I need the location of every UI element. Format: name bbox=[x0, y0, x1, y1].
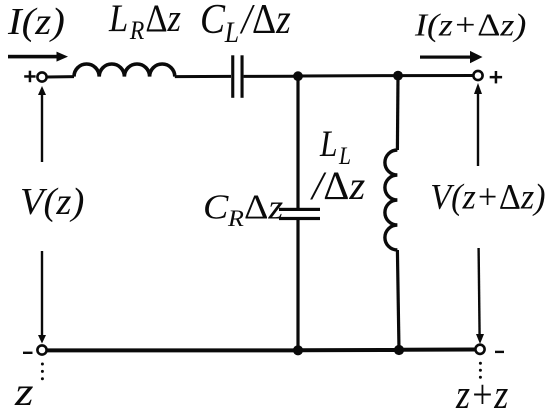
bottom wire node D to terminal BR bbox=[399, 348, 475, 352]
label V(z+dz) bbox=[430, 177, 545, 217]
svg-text:z: z bbox=[14, 371, 34, 414]
capacitor CL bbox=[231, 55, 243, 98]
node A junction dot bbox=[293, 71, 303, 81]
V(z) arrow lower (points down) bbox=[38, 251, 46, 344]
svg-text:C: C bbox=[200, 0, 226, 43]
svg-text:V(z): V(z) bbox=[20, 181, 84, 223]
wire node B to terminal TR bbox=[398, 74, 473, 77]
wire coil LL down to node D bbox=[397, 250, 399, 350]
label CR dz bbox=[203, 188, 283, 231]
svg-text:R: R bbox=[129, 16, 145, 46]
current arrow I(z) bbox=[8, 52, 68, 62]
label z (left) bbox=[14, 371, 34, 414]
svg-text:L: L bbox=[108, 0, 128, 39]
dotted line below BR bbox=[479, 362, 482, 379]
label LR dz bbox=[108, 0, 181, 45]
bottom wire node C to node D bbox=[298, 348, 399, 352]
shunt branch LL: wire node B down to coil bbox=[396, 76, 400, 150]
capacitor CR plates bbox=[279, 208, 320, 220]
shunt branch CR: wire node A down to plate bbox=[296, 76, 299, 208]
V(z+dz) arrow lower (points down) bbox=[476, 248, 484, 344]
svg-text:V(z+Δz): V(z+Δz) bbox=[430, 177, 545, 217]
terminal TL bbox=[37, 72, 46, 81]
label CL/dz bbox=[200, 0, 291, 49]
plus sign left bbox=[24, 71, 35, 83]
svg-text:C: C bbox=[203, 188, 229, 226]
svg-text:L: L bbox=[224, 16, 239, 49]
svg-text:I(z+Δz): I(z+Δz) bbox=[414, 8, 526, 42]
svg-text:Δz: Δz bbox=[145, 0, 181, 39]
label I(z+dz) bbox=[414, 8, 526, 42]
svg-text:I(z): I(z) bbox=[7, 0, 65, 42]
current arrow I(z+dz) bbox=[420, 51, 483, 63]
svg-text:/Δz: /Δz bbox=[240, 0, 291, 43]
node B junction dot bbox=[393, 71, 403, 81]
wire node A to node B bbox=[298, 74, 398, 77]
terminal BR bbox=[475, 345, 484, 354]
terminal BL bbox=[37, 345, 46, 354]
minus sign left bbox=[23, 352, 33, 354]
wire inductor to capacitor CL bbox=[175, 75, 231, 78]
inductor LL coil bbox=[385, 150, 398, 250]
label z+z (right) bbox=[455, 372, 508, 418]
inductor LR bbox=[74, 64, 175, 77]
svg-text:/Δz: /Δz bbox=[310, 163, 366, 207]
label I(z) bbox=[7, 0, 65, 42]
V(z) arrow upper (points up) bbox=[38, 86, 46, 162]
label LL/dz bbox=[319, 124, 351, 170]
svg-text:Δz: Δz bbox=[244, 188, 283, 226]
svg-text:L: L bbox=[319, 124, 337, 165]
minus sign right bbox=[495, 351, 504, 353]
wire capacitor CL to node A bbox=[244, 75, 298, 78]
label V(z) bbox=[20, 181, 84, 223]
svg-text:R: R bbox=[227, 206, 244, 232]
dotted line below BL bbox=[41, 363, 44, 381]
svg-text:z+z: z+z bbox=[455, 372, 508, 418]
node C junction dot bbox=[293, 345, 303, 355]
wire TL to inductor bbox=[47, 75, 74, 78]
V(z+dz) arrow upper (points up) bbox=[474, 83, 482, 166]
terminal TR bbox=[473, 71, 482, 80]
wire capacitor CR down to node C bbox=[296, 220, 299, 351]
bottom wire BL to node C bbox=[47, 348, 298, 352]
node D junction dot bbox=[394, 345, 404, 355]
plus sign right bbox=[490, 71, 502, 83]
